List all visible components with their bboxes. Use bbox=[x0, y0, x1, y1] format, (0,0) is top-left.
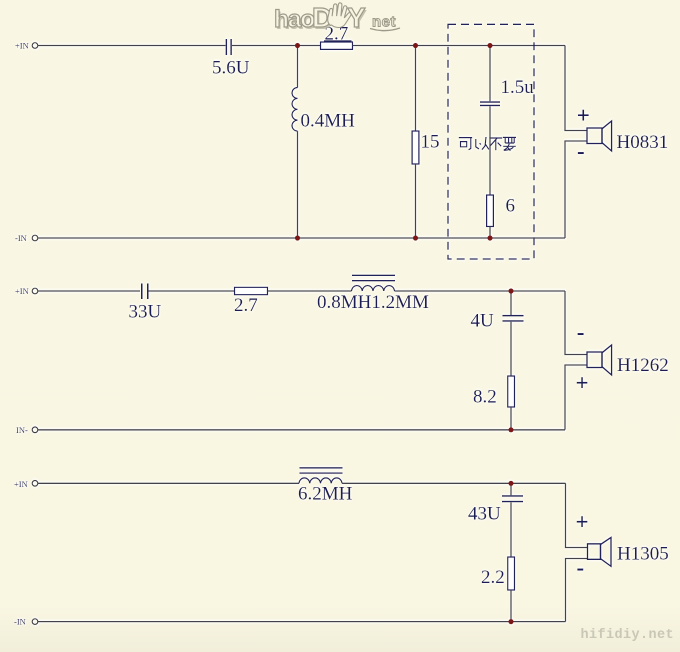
svg-text:+: + bbox=[577, 103, 590, 128]
speaker H1305 bbox=[588, 537, 612, 566]
junction dot D' bbox=[508, 427, 513, 432]
node +IN (section2) bbox=[15, 286, 38, 296]
junction dot A bbox=[295, 43, 300, 48]
resistor 2.2 bbox=[508, 557, 515, 590]
junction dot C' bbox=[487, 235, 492, 240]
junction dot E bbox=[508, 481, 513, 486]
node -IN (section1) bbox=[15, 233, 38, 243]
wire (bottom rail section3) bbox=[38, 621, 566, 623]
svg-text:15: 15 bbox=[421, 132, 440, 153]
junction dot A' bbox=[295, 235, 300, 240]
node IN- (section2) bbox=[16, 425, 38, 435]
svg-text:-IN: -IN bbox=[15, 233, 27, 243]
svg-text:hifidiy.net: hifidiy.net bbox=[581, 628, 675, 643]
wire bbox=[342, 482, 566, 484]
wire (bottom rail section2) bbox=[38, 429, 565, 431]
wire bbox=[232, 45, 321, 47]
wire (branch down) bbox=[510, 483, 512, 495]
wire (bottom rail section1) bbox=[38, 237, 565, 239]
resistor 2.7 (series, section1) bbox=[321, 42, 353, 49]
wire bbox=[415, 164, 417, 238]
capacitor 33U bbox=[141, 284, 149, 300]
wire bbox=[510, 502, 512, 557]
inductor 0.4MH bbox=[292, 88, 297, 132]
wire bbox=[353, 45, 566, 47]
glyph BU bbox=[489, 138, 502, 150]
wire (right rail bottom, section3) bbox=[566, 559, 588, 622]
junction dot D bbox=[508, 288, 513, 293]
wire (right rail top, section2) bbox=[565, 291, 587, 355]
wire bbox=[38, 45, 226, 47]
svg-text:8.2: 8.2 bbox=[473, 387, 497, 408]
glyph YAO bbox=[503, 137, 516, 150]
wire (vertical branch to L 0.4MH) bbox=[297, 46, 299, 88]
resistor 2.7 (series, section2) bbox=[235, 287, 268, 294]
wire bbox=[38, 482, 299, 484]
hifidiy.net watermark bbox=[581, 628, 675, 643]
svg-text:5.6U: 5.6U bbox=[212, 58, 250, 79]
wire bbox=[149, 290, 235, 292]
svg-text:33U: 33U bbox=[129, 302, 162, 323]
svg-text:+IN: +IN bbox=[14, 479, 28, 489]
wire (right rail bottom, section2) bbox=[565, 365, 587, 430]
svg-text:2.2: 2.2 bbox=[481, 567, 505, 588]
wire (right rail bottom, section1) bbox=[565, 141, 587, 238]
speaker H0831 bbox=[587, 121, 612, 151]
node +IN (section1) bbox=[15, 41, 38, 51]
svg-text:H1305: H1305 bbox=[617, 544, 669, 565]
haoDIY.net logo watermark bbox=[274, 2, 400, 35]
svg-text:+IN: +IN bbox=[15, 286, 29, 296]
wire bbox=[268, 290, 352, 292]
svg-text:6: 6 bbox=[506, 196, 516, 217]
resistor 6 (optional) bbox=[487, 195, 494, 227]
svg-text:-IN: -IN bbox=[14, 616, 26, 626]
note 可以不要 (hand-drawn glyphs) bbox=[459, 137, 516, 151]
junction dot B bbox=[413, 43, 418, 48]
node +IN (section3) bbox=[14, 479, 38, 489]
svg-text:Y: Y bbox=[347, 2, 366, 33]
resistor 15 (shunt) bbox=[412, 131, 419, 164]
junction dot C bbox=[487, 43, 492, 48]
svg-text:+IN: +IN bbox=[15, 41, 29, 51]
capacitor 5.6U bbox=[226, 39, 232, 55]
junction dot B' bbox=[413, 235, 418, 240]
svg-text:-: - bbox=[577, 320, 585, 345]
wire bbox=[297, 131, 299, 238]
svg-text:+: + bbox=[576, 510, 589, 535]
capacitor 1.5u bbox=[480, 101, 500, 106]
wire (right rail top, section3) bbox=[566, 483, 588, 547]
wire bbox=[489, 106, 491, 195]
wire (branch down) bbox=[510, 291, 512, 315]
wire (vertical branch to R 15) bbox=[415, 46, 417, 132]
wire bbox=[38, 290, 140, 292]
svg-text:43U: 43U bbox=[468, 504, 501, 525]
capacitor 43U bbox=[502, 495, 523, 502]
glyph YI bbox=[476, 137, 489, 150]
dashed optional box bbox=[448, 24, 534, 259]
wire bbox=[489, 227, 491, 239]
wire bbox=[395, 290, 566, 292]
svg-text:0.8MH1.2MM: 0.8MH1.2MM bbox=[317, 292, 429, 313]
svg-text:-: - bbox=[577, 555, 585, 580]
speaker H1262 bbox=[587, 345, 612, 375]
junction dot E' bbox=[508, 619, 513, 624]
svg-text:H1262: H1262 bbox=[617, 355, 669, 376]
wire (branch to optional RC) bbox=[489, 46, 491, 102]
wire bbox=[510, 322, 512, 376]
svg-text:4U: 4U bbox=[471, 311, 495, 332]
svg-text:6.2MH: 6.2MH bbox=[298, 484, 353, 505]
value label 2.7 (underlined) bbox=[324, 24, 352, 45]
resistor 8.2 bbox=[508, 376, 515, 407]
svg-text:IN-: IN- bbox=[16, 425, 28, 435]
capacitor 4U bbox=[503, 315, 524, 322]
svg-text:net: net bbox=[372, 14, 396, 31]
node -IN (section3) bbox=[14, 616, 38, 626]
svg-text:-: - bbox=[577, 138, 585, 163]
svg-text:0.4MH: 0.4MH bbox=[301, 111, 356, 132]
glyph KE bbox=[459, 138, 472, 150]
svg-text:H0831: H0831 bbox=[617, 132, 669, 153]
svg-text:+: + bbox=[576, 370, 589, 395]
svg-text:hao: hao bbox=[274, 6, 315, 33]
wire (right rail top, section1) bbox=[565, 46, 587, 131]
inductor 6.2MH bbox=[299, 468, 343, 484]
svg-text:2.7: 2.7 bbox=[234, 295, 258, 316]
svg-text:1.5u: 1.5u bbox=[501, 77, 535, 98]
wire bbox=[510, 407, 512, 430]
inductor 0.8MH1.2MM bbox=[352, 275, 396, 291]
wire bbox=[510, 590, 512, 622]
